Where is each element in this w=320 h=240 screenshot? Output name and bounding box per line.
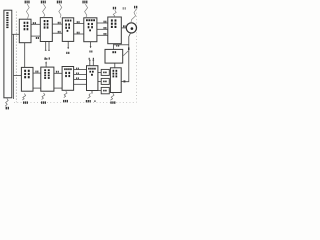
M4 up stub 2 <box>93 60 95 65</box>
wire M1 to M2 lower <box>33 87 41 89</box>
node label near junction <box>116 45 119 47</box>
stub labels above M4 <box>89 58 94 60</box>
block 1 vertical label text <box>6 12 8 28</box>
wire junction to BR <box>121 81 123 83</box>
wire left bus to M1 <box>14 74 22 76</box>
wire M3 to M4 line4 <box>74 83 87 85</box>
wire label <box>77 32 80 34</box>
reference numeral below M2 <box>41 101 46 103</box>
small box SB2 <box>101 78 109 84</box>
reference numeral above gap B2-B3 <box>57 1 62 4</box>
dashed fold line left <box>15 12 17 103</box>
leader squiggle to BR <box>110 93 114 100</box>
wire W down to BR <box>114 63 116 68</box>
reference numeral above motor <box>134 6 137 9</box>
wire motor down <box>123 33 130 82</box>
leader squiggle to B1 <box>26 4 29 19</box>
wire M2 to M3 lower <box>54 87 62 89</box>
M1 label text <box>24 70 29 79</box>
dashed fold line right <box>136 6 138 102</box>
wire B1 down to M1 <box>24 43 26 68</box>
wire label <box>104 33 107 35</box>
wire M3 to M4 line2 <box>74 74 87 76</box>
block B2 <box>40 18 52 42</box>
wire B2 to B3 lower <box>52 32 62 34</box>
B4 label text <box>86 19 95 31</box>
leader squiggle below M2 <box>42 93 45 100</box>
M2 up arrow stub <box>45 62 47 67</box>
stub label <box>66 52 69 54</box>
block W sensor <box>105 49 123 63</box>
reference numeral above B5 <box>113 7 116 10</box>
B5 label text <box>111 19 117 28</box>
reference numeral above B2 <box>41 1 46 4</box>
block M1 <box>21 67 33 91</box>
B1 label text <box>24 22 29 31</box>
reference numeral below M1 <box>23 101 28 103</box>
wire B1 to B2 lower <box>31 35 40 37</box>
dashed border bottom <box>14 101 137 103</box>
wire B5 to motor <box>121 27 126 29</box>
stub label <box>89 51 92 53</box>
M4 label text <box>88 68 96 76</box>
stub label above M2 <box>44 58 47 60</box>
wire B3 to B4 upper <box>74 23 84 25</box>
block B5 driver <box>108 17 122 44</box>
wire label <box>36 37 39 39</box>
B2 label text <box>44 20 49 29</box>
M4 bottom stub <box>91 91 93 94</box>
wire B4 to B5 bottom <box>97 34 108 36</box>
block M3 <box>62 67 74 91</box>
reference numeral 4 <box>128 47 130 50</box>
wire label <box>77 21 80 23</box>
wire label 5a <box>33 22 36 24</box>
leader squiggle to motor <box>131 9 136 23</box>
junction dot <box>123 80 125 82</box>
leader squiggle to B5 <box>113 10 116 17</box>
wire M4 to SB2 <box>98 80 101 82</box>
wire B4 to B5 top <box>97 22 108 24</box>
small box SB3 <box>101 87 109 93</box>
reference numeral below M4 <box>86 100 91 102</box>
leader squiggle to B4 <box>85 4 88 18</box>
wire block1 to B1 <box>12 33 19 35</box>
reference numeral above B1 <box>25 1 30 4</box>
B3 label text <box>65 20 71 32</box>
wire B4 to B5 middle <box>97 28 108 30</box>
wire B3 to B4 lower <box>74 33 84 35</box>
wire M2 to M3 upper <box>54 72 62 74</box>
leader squiggle below M3 <box>64 91 67 98</box>
wire M3 to M4 line1 <box>74 69 87 71</box>
wire branch down left bus <box>13 34 15 99</box>
wire label <box>35 71 38 73</box>
block BR <box>110 68 121 93</box>
block B3 <box>62 18 73 42</box>
wire B2 to B3 upper <box>52 23 62 25</box>
motor hub dot <box>131 27 134 30</box>
B2 bottom stub a <box>45 42 47 51</box>
W label text <box>112 51 116 53</box>
wire labels <box>76 68 79 80</box>
wire M4 to SB1 <box>98 71 101 73</box>
motor M <box>126 23 136 33</box>
SB3 text <box>103 90 106 92</box>
reference numeral below M3 <box>63 100 68 102</box>
block B1 <box>19 19 31 43</box>
wire label <box>58 22 61 24</box>
leader squiggle to B2 <box>43 4 46 18</box>
leader squiggle to B3 top-left <box>59 4 62 18</box>
wire label <box>58 31 61 33</box>
M2 label text <box>44 69 50 79</box>
leader line to W <box>123 51 128 56</box>
BR label text <box>113 70 118 78</box>
wire M3 to M4 line3 <box>74 78 87 80</box>
B3 bottom stub with arrow <box>67 41 69 48</box>
B2 bottom stub b <box>48 42 50 51</box>
leader squiggle below M1 <box>22 94 25 100</box>
wire M4 to SB3 <box>98 90 101 92</box>
block M2 <box>41 67 54 91</box>
wire B5 down to W <box>113 44 115 50</box>
small numeral right <box>94 100 96 102</box>
leader squiggle to block 1 <box>5 98 8 106</box>
wire B1 to B2 upper <box>31 23 40 25</box>
block 1: tall input unit box <box>4 10 12 98</box>
wire label <box>104 21 107 23</box>
SB1 text <box>103 72 106 74</box>
wire M1 to M2 upper <box>33 72 41 74</box>
B4 bottom stub with arrow <box>90 42 92 48</box>
M3 label text <box>64 68 72 77</box>
wire junction to right bus <box>114 44 129 46</box>
label on B5-motor wire <box>123 25 126 27</box>
reference numeral 1 <box>6 107 9 110</box>
stub labels <box>45 57 50 59</box>
SB2 text <box>103 81 106 83</box>
reference numeral below BR <box>110 101 115 103</box>
block B4 <box>84 18 97 42</box>
reference numeral above B4 <box>82 1 87 4</box>
faint numeral above B5-motor area <box>123 7 126 9</box>
wire label <box>56 71 59 73</box>
wire label <box>104 27 107 29</box>
small box SB1 <box>101 69 109 75</box>
leader squiggle below M4 <box>88 93 91 98</box>
M4 up stub 1 <box>89 60 91 65</box>
block M4 controller <box>87 66 98 91</box>
